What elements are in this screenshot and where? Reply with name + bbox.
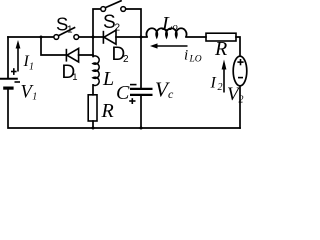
svg-text:1: 1 (32, 92, 37, 103)
svg-text:2: 2 (123, 54, 129, 65)
svg-text:L: L (102, 68, 114, 90)
svg-text:1: 1 (67, 25, 73, 36)
svg-text:C: C (116, 82, 130, 104)
svg-text:o: o (173, 22, 178, 33)
svg-text:2: 2 (218, 82, 223, 93)
svg-text:2: 2 (239, 95, 244, 106)
svg-text:2: 2 (115, 23, 121, 34)
svg-text:c: c (168, 87, 174, 101)
svg-text:L: L (161, 13, 173, 35)
svg-text:LO: LO (189, 55, 202, 65)
svg-text:1: 1 (72, 72, 77, 83)
svg-text:i: i (184, 48, 188, 64)
svg-text:I: I (210, 75, 217, 92)
svg-text:1: 1 (29, 62, 34, 73)
svg-text:R: R (214, 38, 227, 60)
svg-text:R: R (101, 100, 114, 122)
